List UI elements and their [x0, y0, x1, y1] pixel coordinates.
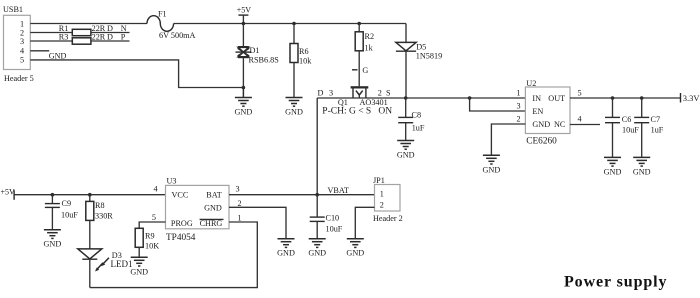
svg-text:D1: D1 [250, 46, 260, 55]
svg-text:D5: D5 [416, 42, 426, 51]
svg-text:1N5819: 1N5819 [416, 51, 442, 60]
transistor Q1 AO3401 P-MOSFET [351, 86, 369, 98]
svg-text:Header 5: Header 5 [4, 74, 34, 83]
junction dot EN branch [468, 96, 472, 100]
svg-text:1uF: 1uF [412, 124, 425, 133]
svg-text:Power supply: Power supply [564, 273, 667, 290]
junction dot C9 [51, 193, 55, 197]
ground symbol below C6 [604, 157, 621, 166]
wire U3 GND pin2 [229, 207, 286, 238]
wire R1 to D_N [91, 32, 130, 34]
svg-text:BAT: BAT [206, 191, 221, 200]
ground symbol below R9 [131, 257, 148, 266]
svg-text:GND: GND [532, 120, 550, 129]
svg-text:10K: 10K [145, 242, 159, 251]
charger U3 body [166, 185, 230, 228]
LED D3 [78, 249, 102, 288]
svg-text:C8: C8 [412, 111, 422, 120]
wire pin3 to R3 [30, 40, 72, 42]
svg-text:GND: GND [483, 165, 501, 174]
svg-text:GND: GND [285, 108, 303, 117]
svg-text:TP4054: TP4054 [166, 233, 196, 243]
svg-text:2: 2 [517, 115, 521, 124]
power terminal +5V top [238, 14, 248, 16]
svg-text:GND: GND [44, 240, 62, 249]
connector JP1 (Header 2) body [375, 185, 401, 212]
svg-text:C9: C9 [62, 199, 72, 208]
svg-text:D: D [318, 88, 324, 97]
svg-text:GND: GND [604, 167, 622, 176]
wire R3 to D_P [91, 40, 130, 42]
resistor R8 [89, 195, 91, 202]
svg-text:Header 2: Header 2 [373, 214, 403, 223]
ground symbol below D1 [235, 88, 252, 107]
capacitor C6 [612, 98, 614, 117]
svg-text:10k: 10k [299, 57, 312, 66]
svg-text:10uF: 10uF [622, 126, 639, 135]
svg-text:GND: GND [204, 203, 222, 212]
capacitor C9 [51, 195, 53, 204]
svg-text:R9: R9 [145, 232, 155, 241]
svg-text:1: 1 [238, 214, 242, 223]
ground symbol below C8 [397, 141, 414, 150]
svg-text:CHRG: CHRG [200, 219, 223, 228]
wire pin4 stub [30, 50, 49, 52]
power terminal +5V bottom [13, 190, 15, 200]
svg-text:P-CH: G < S ON: P-CH: G < S ON [322, 106, 392, 116]
wire pin2 to R1 [30, 32, 72, 34]
wire U2 GND pin2 [491, 124, 525, 155]
svg-text:VBAT: VBAT [328, 186, 349, 195]
svg-text:D: D [107, 33, 113, 42]
svg-text:3: 3 [20, 37, 24, 46]
svg-text:+5V: +5V [1, 188, 16, 197]
wire NC pin4 stub [570, 124, 600, 126]
svg-text:C10: C10 [326, 214, 340, 223]
svg-text:PROG: PROG [171, 219, 193, 228]
wire pin1 to fuse [30, 23, 147, 25]
svg-text:6V 500mA: 6V 500mA [159, 31, 196, 40]
svg-text:U3: U3 [167, 177, 177, 186]
svg-text:3: 3 [329, 88, 333, 97]
svg-text:3: 3 [517, 102, 521, 111]
junction dot D5/C8 [404, 96, 408, 100]
svg-text:2: 2 [238, 199, 242, 208]
wire source-drain channel [317, 97, 525, 99]
ground symbol below U2 pin2 [483, 155, 500, 164]
wire PROG to R9 [139, 222, 165, 228]
svg-text:C6: C6 [622, 115, 632, 124]
wire +5V rail to U3 VCC [14, 194, 165, 196]
svg-text:1k: 1k [365, 44, 374, 53]
resistor R1 [72, 29, 91, 35]
gate pin dash and G [352, 69, 358, 71]
svg-text:S: S [386, 88, 391, 97]
svg-text:NC: NC [554, 120, 566, 129]
svg-text:R8: R8 [95, 201, 105, 210]
svg-text:GND: GND [346, 249, 364, 258]
wire JP1 pin2 to ground [355, 207, 374, 238]
junction dot C6 [611, 96, 615, 100]
capacitor C10 [316, 195, 318, 217]
svg-text:EN: EN [532, 107, 543, 116]
svg-text:GND: GND [235, 108, 253, 117]
ground symbol below U3 pin2 [278, 239, 295, 248]
svg-text:GND: GND [397, 151, 415, 160]
svg-text:JP1: JP1 [373, 176, 385, 185]
svg-text:R6: R6 [299, 47, 309, 56]
resistor R6 [293, 24, 295, 44]
svg-text:LED1: LED1 [111, 259, 133, 269]
svg-text:1: 1 [380, 190, 384, 199]
ground symbol below C10 [309, 239, 326, 248]
svg-text:GND: GND [633, 167, 651, 176]
terminal 3.3V [680, 93, 682, 103]
junction dot R8 [88, 193, 92, 197]
resistor R3 [72, 38, 91, 44]
wire OUT to 3.3V [570, 97, 681, 99]
junction dot at +5V [242, 22, 246, 26]
svg-text:2: 2 [378, 88, 382, 97]
ground symbol below R6 [286, 98, 303, 107]
capacitor C8 [405, 98, 407, 117]
resistor R9 [135, 228, 143, 247]
svg-text:RSB6.8S: RSB6.8S [249, 56, 280, 65]
resistor R2 [358, 24, 360, 32]
svg-text:VCC: VCC [172, 191, 189, 200]
svg-text:10uF: 10uF [61, 210, 78, 219]
fuse F1 [147, 16, 174, 32]
svg-text:5: 5 [20, 56, 24, 65]
svg-text:R3: R3 [59, 33, 69, 42]
svg-text:10uF: 10uF [326, 225, 343, 234]
wire pin5 GND net [30, 60, 243, 88]
svg-text:C7: C7 [651, 115, 661, 124]
svg-text:IN: IN [532, 94, 541, 103]
wire fuse to corner above D5 [174, 23, 406, 25]
junction dot C7 [640, 96, 644, 100]
svg-text:+5V: +5V [237, 6, 252, 15]
svg-text:5: 5 [152, 213, 156, 222]
svg-text:R2: R2 [365, 32, 375, 41]
capacitor C7 [641, 98, 643, 117]
junction dot R2 top [357, 22, 361, 26]
ground symbol below C9 [44, 230, 61, 239]
svg-text:GND: GND [49, 51, 67, 60]
ground symbol below C7 [633, 157, 650, 166]
svg-text:22R: 22R [92, 33, 106, 42]
svg-text:U2: U2 [526, 79, 536, 88]
svg-text:4: 4 [20, 47, 24, 56]
svg-text:5: 5 [578, 89, 582, 98]
svg-text:GND: GND [308, 249, 326, 258]
LED arrows [95, 258, 109, 272]
svg-text:G: G [362, 66, 368, 75]
svg-text:1: 1 [20, 19, 24, 28]
junction dot VBAT [315, 193, 319, 197]
TVS diode D1 [236, 24, 252, 88]
svg-text:330R: 330R [95, 212, 113, 221]
wire CHRG loop to LED [90, 222, 257, 288]
diode D5 1N5819 [405, 24, 407, 43]
svg-text:3: 3 [236, 185, 240, 194]
svg-text:3.3V: 3.3V [683, 93, 700, 103]
svg-text:4: 4 [578, 115, 582, 124]
svg-text:P: P [121, 33, 126, 42]
svg-text:4: 4 [154, 185, 158, 194]
svg-text:GND: GND [130, 267, 148, 276]
svg-text:1uF: 1uF [651, 126, 664, 135]
svg-text:1: 1 [517, 89, 521, 98]
junction dot R6 top [292, 22, 296, 26]
connector USB1 (Header 5) body [4, 15, 31, 69]
svg-text:2: 2 [380, 200, 384, 209]
svg-text:CE6260: CE6260 [526, 137, 557, 147]
wire EN branch [470, 98, 526, 111]
svg-text:GND: GND [277, 249, 295, 258]
svg-text:F1: F1 [158, 10, 167, 19]
ground symbol below JP1 pin2 [347, 239, 364, 248]
wire BAT to JP1 [229, 194, 375, 196]
svg-text:USB1: USB1 [3, 5, 23, 14]
junction dot D1 bottom [242, 86, 246, 90]
wire drain down to VBAT [316, 98, 318, 195]
svg-text:OUT: OUT [548, 94, 565, 103]
regulator U2 body [525, 87, 570, 134]
